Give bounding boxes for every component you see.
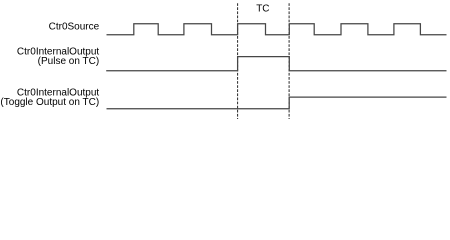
node TC dashed marker line 1 xyxy=(237,3,239,119)
wire Ctr0Source clock waveform xyxy=(107,24,447,35)
svg-text:Ctr0Source: Ctr0Source xyxy=(49,22,100,33)
wire Ctr0InternalOutput pulse waveform xyxy=(106,57,446,71)
svg-text:(Pulse on TC): (Pulse on TC) xyxy=(38,56,100,67)
svg-text:(Toggle Output on TC): (Toggle Output on TC) xyxy=(0,97,99,108)
node TC dashed marker line 2 xyxy=(288,3,290,119)
svg-text:TC: TC xyxy=(256,3,269,14)
wire Ctr0InternalOutput toggle waveform xyxy=(107,97,447,109)
